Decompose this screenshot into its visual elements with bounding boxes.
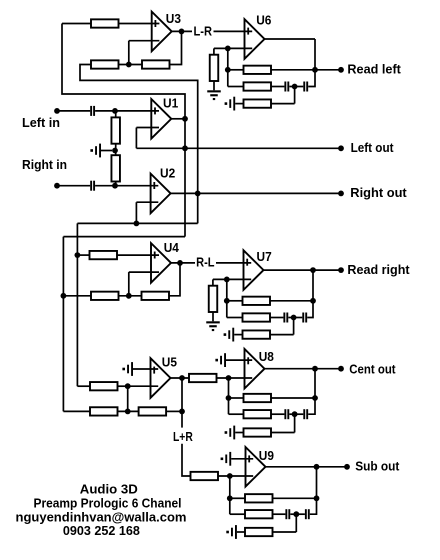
svg-text:U2: U2 (160, 165, 175, 180)
svg-text:Audio 3D: Audio 3D (80, 481, 138, 496)
svg-text:Right out: Right out (350, 185, 407, 200)
svg-text:U8: U8 (259, 349, 274, 364)
svg-text:R-L: R-L (196, 254, 215, 269)
svg-text:U9: U9 (259, 448, 274, 463)
svg-text:U7: U7 (257, 249, 272, 264)
svg-text:Left out: Left out (351, 140, 395, 155)
svg-text:U1: U1 (163, 95, 178, 110)
svg-text:Sub out: Sub out (355, 458, 400, 473)
svg-text:Left in: Left in (22, 115, 60, 130)
svg-text:U4: U4 (164, 240, 180, 255)
svg-text:Preamp Prologic 6 Chanel: Preamp Prologic 6 Chanel (34, 495, 182, 510)
svg-text:L-R: L-R (194, 23, 213, 38)
svg-text:Right in: Right in (22, 157, 67, 172)
svg-text:L+R: L+R (173, 429, 193, 444)
svg-text:U3: U3 (166, 11, 181, 26)
svg-text:Read right: Read right (347, 262, 410, 277)
svg-text:Cent out: Cent out (349, 361, 396, 376)
svg-text:Read left: Read left (347, 62, 401, 77)
svg-text:U5: U5 (162, 355, 177, 370)
svg-text:0903 252 168: 0903 252 168 (63, 523, 140, 538)
svg-text:U6: U6 (256, 13, 271, 28)
